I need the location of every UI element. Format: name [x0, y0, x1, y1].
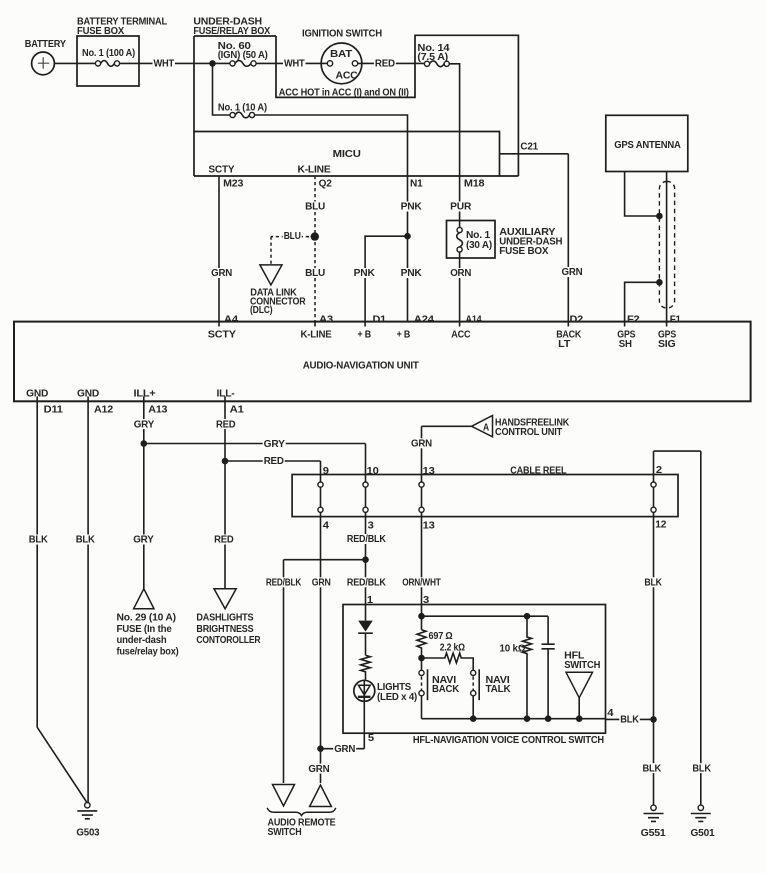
svg-text:HFL-NAVIGATION VOICE CONTROL S: HFL-NAVIGATION VOICE CONTROL SWITCH	[413, 735, 604, 746]
svg-text:A1: A1	[230, 404, 245, 415]
svg-text:D2: D2	[570, 314, 584, 325]
svg-text:M18: M18	[464, 179, 485, 190]
svg-text:13: 13	[423, 521, 436, 532]
svg-text:BLK: BLK	[692, 763, 711, 774]
svg-text:BLK: BLK	[643, 763, 662, 774]
svg-text:CABLE REEL: CABLE REEL	[510, 466, 566, 477]
svg-text:F1: F1	[670, 314, 682, 325]
svg-text:A3: A3	[319, 314, 334, 325]
svg-text:A12: A12	[94, 404, 114, 415]
svg-text:SIG: SIG	[658, 339, 676, 350]
svg-text:G501: G501	[691, 828, 716, 839]
svg-text:BLK: BLK	[620, 715, 639, 726]
svg-text:ACC: ACC	[336, 71, 358, 82]
svg-text:GRN: GRN	[312, 578, 331, 589]
svg-text:D11: D11	[44, 404, 64, 415]
svg-text:RED: RED	[216, 419, 235, 430]
svg-text:CONTROL UNIT: CONTROL UNIT	[495, 427, 562, 438]
svg-text:13: 13	[423, 466, 436, 477]
svg-text:GRN: GRN	[411, 439, 432, 450]
svg-text:CONTOROLLER: CONTOROLLER	[196, 635, 261, 646]
svg-text:(IGN) (50 A): (IGN) (50 A)	[218, 50, 268, 61]
svg-text:SWITCH: SWITCH	[564, 660, 600, 671]
svg-text:GRN: GRN	[334, 744, 355, 755]
svg-text:PNK: PNK	[401, 202, 423, 213]
svg-text:3: 3	[368, 521, 375, 532]
svg-text:+ B: + B	[397, 330, 411, 341]
svg-text:5: 5	[368, 733, 375, 744]
svg-text:WHT: WHT	[284, 59, 305, 70]
svg-text:FUSE BOX: FUSE BOX	[499, 246, 549, 257]
svg-text:BLU: BLU	[284, 231, 301, 242]
svg-text:697 Ω: 697 Ω	[429, 631, 453, 642]
svg-text:GPS ANTENNA: GPS ANTENNA	[614, 140, 681, 151]
svg-text:G551: G551	[641, 828, 667, 839]
svg-text:TALK: TALK	[486, 684, 512, 695]
svg-text:PNK: PNK	[401, 268, 423, 279]
svg-text:ORN/WHT: ORN/WHT	[402, 578, 441, 589]
svg-text:ILL+: ILL+	[134, 389, 156, 400]
svg-text:No. 29 (10 A): No. 29 (10 A)	[117, 612, 176, 623]
svg-text:BLK: BLK	[76, 535, 96, 546]
svg-text:BAT: BAT	[330, 49, 352, 60]
svg-text:DASHLIGHTS: DASHLIGHTS	[196, 612, 253, 623]
svg-text:RED: RED	[214, 535, 233, 546]
svg-text:D1: D1	[373, 314, 387, 325]
svg-text:10 kΩ: 10 kΩ	[500, 643, 526, 654]
svg-text:9: 9	[323, 466, 330, 477]
svg-text:under-dash: under-dash	[117, 635, 167, 646]
svg-text:C21: C21	[520, 141, 538, 152]
svg-text:BLU: BLU	[305, 202, 325, 213]
svg-text:FUSE/RELAY BOX: FUSE/RELAY BOX	[193, 26, 270, 37]
svg-text:MICU: MICU	[333, 149, 361, 160]
svg-text:ORN: ORN	[450, 268, 471, 279]
svg-text:ACC HOT in ACC (I) and ON (II): ACC HOT in ACC (I) and ON (II)	[279, 87, 409, 98]
svg-text:GRN: GRN	[211, 268, 232, 279]
svg-text:BLK: BLK	[29, 535, 49, 546]
svg-text:RED: RED	[375, 59, 395, 70]
svg-text:ACC: ACC	[451, 330, 470, 341]
svg-text:A4: A4	[224, 314, 239, 325]
svg-text:AUDIO-NAVIGATION UNIT: AUDIO-NAVIGATION UNIT	[303, 361, 419, 372]
svg-text:A24: A24	[414, 314, 435, 325]
svg-text:BLK: BLK	[644, 578, 662, 589]
svg-text:(DLC): (DLC)	[250, 305, 273, 316]
svg-text:4: 4	[323, 521, 330, 532]
svg-text:SCTY: SCTY	[208, 165, 235, 176]
svg-text:BATTERY: BATTERY	[25, 39, 66, 50]
svg-text:WHT: WHT	[154, 59, 175, 70]
svg-text:BRIGHTNESS: BRIGHTNESS	[196, 624, 253, 635]
svg-text:RED: RED	[264, 456, 284, 467]
svg-text:Q2: Q2	[319, 179, 333, 190]
svg-text:SCTY: SCTY	[208, 330, 237, 341]
svg-text:fuse/relay box): fuse/relay box)	[117, 647, 179, 658]
svg-text:K-LINE: K-LINE	[298, 165, 332, 176]
svg-text:RED/BLK: RED/BLK	[266, 578, 302, 589]
svg-text:2.2 kΩ: 2.2 kΩ	[440, 642, 465, 653]
svg-text:+ B: + B	[358, 330, 372, 341]
svg-text:SWITCH: SWITCH	[268, 827, 302, 838]
svg-text:GRY: GRY	[133, 535, 154, 546]
svg-text:G503: G503	[76, 828, 100, 839]
svg-text:RED/BLK: RED/BLK	[347, 534, 387, 545]
svg-text:12: 12	[655, 520, 667, 531]
svg-text:N1: N1	[410, 179, 423, 190]
svg-text:A14: A14	[466, 314, 483, 325]
svg-text:GRY: GRY	[134, 419, 155, 430]
svg-text:RED/BLK: RED/BLK	[347, 578, 387, 589]
svg-text:No. 1 (100 A): No. 1 (100 A)	[82, 48, 135, 59]
svg-text:K-LINE: K-LINE	[301, 330, 333, 341]
svg-text:10: 10	[367, 466, 380, 477]
svg-text:A: A	[483, 422, 489, 433]
svg-text:A13: A13	[148, 404, 168, 415]
svg-text:PNK: PNK	[354, 268, 376, 279]
svg-text:2: 2	[656, 465, 663, 476]
svg-text:PUR: PUR	[450, 202, 472, 213]
svg-text:BLU: BLU	[305, 268, 325, 279]
svg-text:(30 A): (30 A)	[466, 240, 492, 251]
svg-text:FUSE (In the: FUSE (In the	[117, 624, 173, 635]
svg-text:F2: F2	[627, 314, 640, 325]
svg-text:SH: SH	[619, 339, 632, 350]
svg-text:GRY: GRY	[264, 439, 286, 450]
svg-text:GRN: GRN	[308, 764, 329, 775]
svg-text:M23: M23	[223, 179, 244, 190]
svg-text:4: 4	[607, 708, 614, 719]
svg-text:FUSE BOX: FUSE BOX	[77, 26, 124, 37]
svg-text:(LED x 4): (LED x 4)	[377, 692, 417, 703]
svg-text:IGNITION SWITCH: IGNITION SWITCH	[302, 28, 382, 39]
svg-text:No. 1 (10 A): No. 1 (10 A)	[218, 103, 267, 114]
svg-text:GRN: GRN	[562, 267, 583, 278]
svg-text:BACK: BACK	[432, 684, 460, 695]
svg-text:LT: LT	[558, 339, 570, 350]
svg-text:LIGHTS: LIGHTS	[377, 682, 412, 693]
